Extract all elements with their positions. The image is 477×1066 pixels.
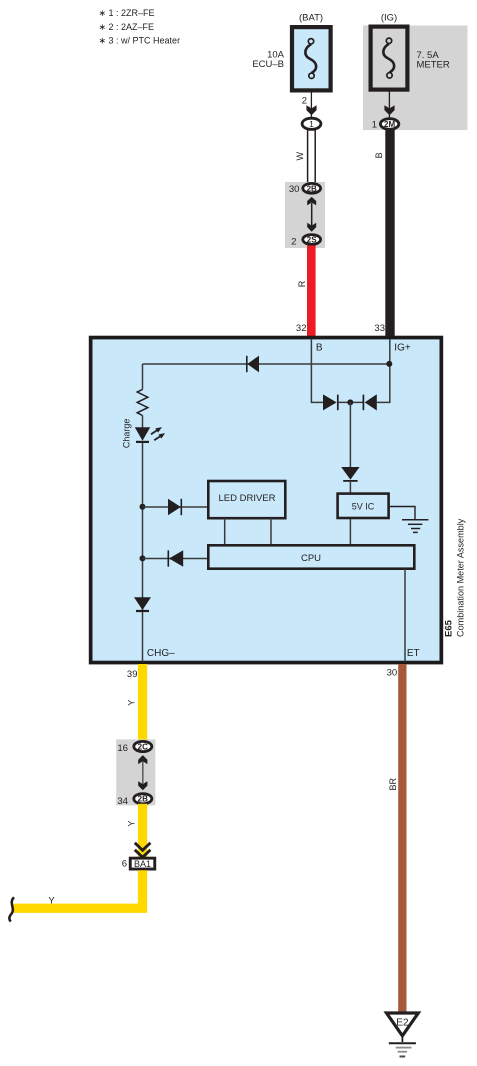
svg-text:B: B [374, 152, 384, 158]
diode D4 pointing down [341, 467, 359, 493]
pin 1 lead of fuse METER [384, 92, 394, 119]
pin 30 label [387, 668, 398, 679]
wire BR (brown) [388, 664, 406, 1012]
svg-text:W: W [295, 152, 305, 161]
diode D5 pointing down (charge chain) [134, 597, 151, 611]
junction connector block 2C/2B [116, 739, 155, 807]
CPU box [208, 545, 414, 568]
svg-text:BA1: BA1 [134, 859, 151, 869]
svg-text:2C: 2C [138, 742, 148, 751]
node ET label [407, 648, 420, 659]
svg-text:LED DRIVER: LED DRIVER [218, 493, 275, 504]
wire Y (yellow) upper segment [127, 664, 148, 741]
wire CPU to ET pin [404, 569, 406, 662]
note: engine applicability [99, 8, 181, 46]
node CHG- label [147, 648, 175, 659]
diode pair row: B-side diode pointing right [311, 394, 363, 410]
svg-text:2S: 2S [307, 236, 317, 245]
svg-text:(BAT): (BAT) [299, 13, 323, 24]
junction connector block 2B/2S [285, 182, 325, 248]
node IG+ label [394, 342, 411, 353]
svg-text:6: 6 [122, 859, 127, 870]
ground of 5V IC [390, 507, 429, 533]
wire 5V IC to CPU [349, 519, 351, 545]
pin 39 label [127, 669, 138, 680]
svg-text:B: B [316, 342, 323, 353]
svg-text:(IG): (IG) [381, 13, 397, 24]
LED DRIVER box [208, 481, 285, 518]
svg-text:CPU: CPU [301, 553, 321, 564]
label (BAT) [299, 13, 323, 24]
svg-text:2: 2 [302, 96, 307, 107]
combination meter assembly box E65 [91, 338, 442, 663]
wire Y (yellow) lower L segment [12, 870, 143, 908]
junction dot charge/LED driver [140, 504, 146, 510]
svg-text:Y: Y [127, 700, 137, 706]
svg-text:IG+: IG+ [394, 342, 411, 353]
pin 2 lead of fuse ECU-B [302, 92, 317, 118]
label 7.5A METER [417, 50, 450, 70]
fuse ECU-B body [292, 27, 331, 90]
svg-text:Y: Y [48, 896, 55, 907]
svg-text:∗ 2 : 2AZ–FE: ∗ 2 : 2AZ–FE [99, 22, 155, 32]
wires LED DRIVER to CPU [225, 518, 271, 545]
splice double chevron [135, 843, 151, 858]
fuse METER body [371, 27, 408, 90]
label E65 Combination Meter Assembly [444, 518, 466, 637]
wire from diode pair down to 5V IC [349, 402, 351, 467]
svg-text:2M: 2M [384, 120, 395, 129]
svg-text:∗ 3 : w/ PTC Heater: ∗ 3 : w/ PTC Heater [99, 36, 181, 46]
label (IG) [381, 13, 397, 24]
svg-text:39: 39 [127, 669, 138, 680]
svg-text:16: 16 [117, 743, 128, 754]
svg-text:BR: BR [388, 778, 398, 791]
svg-text:ECU–B: ECU–B [252, 59, 284, 70]
wire from pin 32 (B) down [310, 339, 312, 403]
junction dot diode pair [347, 399, 353, 405]
junction dot charge/CPU [140, 555, 146, 561]
wire horizontal top rail [143, 363, 390, 365]
svg-text:Charge: Charge [122, 419, 132, 449]
label Charge [122, 419, 132, 449]
svg-text:32: 32 [296, 323, 307, 334]
svg-text:∗ 1 : 2ZR–FE: ∗ 1 : 2ZR–FE [99, 8, 155, 18]
wire left vertical (charge chain) [142, 364, 144, 662]
svg-text:1: 1 [372, 120, 377, 131]
svg-text:34: 34 [117, 796, 128, 807]
resistor R (charge) [137, 389, 148, 415]
svg-text:CHG–: CHG– [147, 648, 175, 659]
wire W (white) [295, 130, 315, 184]
svg-text:30: 30 [289, 184, 300, 195]
svg-text:Y: Y [127, 821, 137, 827]
svg-text:2: 2 [291, 237, 296, 248]
diode D3 pointing left from CPU [143, 550, 209, 566]
connector oval 1 [302, 118, 321, 129]
svg-text:2B: 2B [307, 184, 317, 193]
svg-text:Combination Meter Assembly: Combination Meter Assembly [456, 518, 466, 637]
LED charge [135, 425, 167, 442]
diode D2 pointing right into LED driver [143, 499, 209, 515]
svg-text:E2: E2 [396, 1017, 409, 1028]
svg-text:5V IC: 5V IC [352, 501, 375, 511]
node B label [316, 342, 323, 353]
svg-text:ET: ET [407, 648, 420, 659]
wire Y (yellow) mid segment [127, 804, 148, 857]
continuation squiggle [9, 897, 14, 921]
junction dot on IG+ [386, 361, 392, 367]
svg-text:E65: E65 [444, 619, 455, 637]
label 10A ECU-B [252, 50, 284, 70]
diode D1 (to charge chain, pointing left) [247, 356, 259, 373]
wire from pin 33 (IG+) down [389, 339, 391, 403]
svg-text:1: 1 [309, 119, 314, 129]
gray background IG region [363, 26, 468, 131]
diode pair row: IG-side diode pointing left [363, 394, 389, 410]
svg-text:30: 30 [387, 668, 398, 679]
ground E2 [387, 1013, 419, 1057]
connector oval 2M [372, 119, 399, 131]
wire R (red) [296, 246, 316, 338]
5V IC box [338, 494, 389, 518]
connector BA1 [122, 858, 155, 869]
svg-text:METER: METER [417, 59, 450, 70]
svg-text:2B: 2B [138, 795, 148, 804]
svg-text:33: 33 [374, 323, 385, 334]
svg-text:R: R [297, 280, 307, 287]
wire B (black) [374, 130, 395, 337]
